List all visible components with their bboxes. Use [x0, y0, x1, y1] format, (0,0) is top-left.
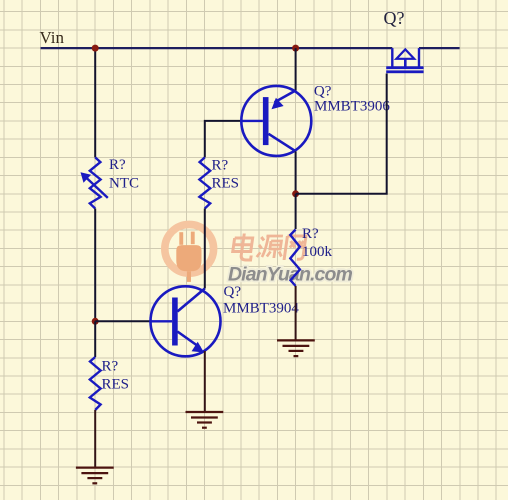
svg-text:Vin: Vin [40, 28, 65, 47]
wire left branch down to NTC [94, 48, 96, 157]
svg-text:Q?: Q? [384, 8, 405, 28]
ground G2 (under Q2) [186, 412, 224, 428]
svg-text:MMBT3906: MMBT3906 [314, 99, 390, 115]
svg-text:DianYuan.com: DianYuan.com [228, 264, 352, 286]
junction node collector/gate/R4 [292, 190, 299, 197]
svg-text:RES: RES [102, 377, 130, 393]
watermark plug body [176, 245, 201, 271]
svg-text:Q?: Q? [224, 284, 242, 300]
wire Q2 emitter to ground [204, 351, 206, 412]
watermark chinese 源 [257, 236, 285, 258]
junction node at Vin/PNP emitter [292, 45, 299, 52]
ground G3 (under R4) [277, 340, 315, 356]
wire base node to Q2 base [95, 320, 150, 322]
wire PNP emitter from rail [295, 48, 297, 90]
resistor R3 RES (middle) [199, 157, 210, 208]
svg-text:Q?: Q? [314, 83, 332, 99]
wire base node down to R2 [94, 321, 96, 357]
junction node at Vin/left [92, 45, 99, 52]
NTC arrow [81, 172, 108, 198]
resistor R2 RES (bottom left) [90, 357, 101, 410]
wire middle branch: PNP base to R3 [205, 121, 241, 157]
watermark plug stem [187, 271, 191, 282]
svg-text:100k: 100k [302, 244, 333, 260]
svg-text:NTC: NTC [109, 176, 139, 192]
svg-text:R?: R? [302, 226, 319, 242]
watermark logo ring [165, 224, 214, 273]
wire Vin rail left segment [41, 47, 393, 49]
svg-text:R?: R? [109, 157, 126, 173]
transistor Q2 MMBT3904 (NPN) [150, 286, 220, 356]
svg-text:R?: R? [102, 359, 119, 375]
wire Q1 collector to node [295, 151, 297, 193]
watermark chinese 电 [232, 234, 255, 261]
wire R4 to ground [295, 286, 297, 340]
watermark chinese 网 [284, 236, 306, 260]
wire R2 to ground [94, 410, 96, 467]
svg-text:R?: R? [212, 158, 229, 174]
watermark plug prongs [179, 232, 194, 245]
wire Vin rail right segment [419, 47, 460, 49]
ground G1 (bottom left) [76, 468, 114, 484]
transistor Q3 MOSFET-P [386, 48, 423, 73]
transistor Q1 MMBT3906 (PNP) [241, 86, 312, 156]
resistor R1 NTC [90, 157, 101, 208]
wire node down to R4 [295, 194, 297, 229]
svg-text:RES: RES [212, 176, 240, 192]
wire R3 to Q2 collector [204, 209, 206, 289]
junction node base of Q2 [92, 318, 99, 325]
wire node to MOSFET gate [296, 74, 387, 194]
wire NTC to base node [94, 209, 96, 322]
svg-text:MMBT3904: MMBT3904 [223, 300, 299, 316]
resistor R4 100k [290, 230, 300, 287]
